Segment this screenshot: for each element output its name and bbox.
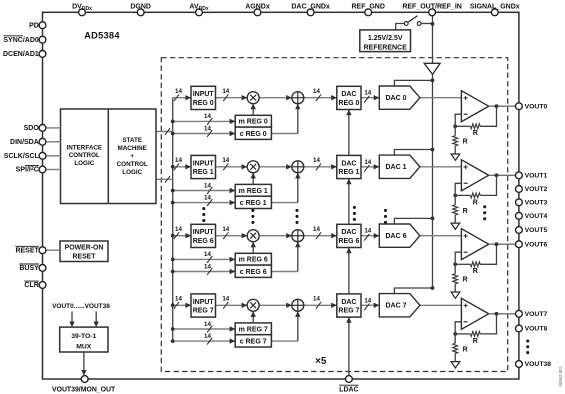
pin VOUT1	[516, 172, 523, 179]
svg-text:VOUT3: VOUT3	[525, 200, 548, 207]
svg-text:AGNDx: AGNDx	[245, 4, 270, 11]
slash and 14 label after adder channel 7	[316, 302, 321, 309]
slash and 14 label after INPUT REG 0	[223, 94, 228, 101]
DAC register box DAC REG 7	[337, 294, 361, 317]
svg-text:SCLK/SCL: SCLK/SCL	[4, 153, 40, 160]
svg-text:VOUT6: VOUT6	[525, 241, 548, 248]
wire c REG 0 tap and feed to adder	[173, 133, 298, 135]
slash and 14 label after DAC REG 0	[364, 96, 369, 103]
svg-text:SIGNAL_GNDx: SIGNAL_GNDx	[470, 4, 520, 11]
svg-text:SPI/I2C: SPI/I2C	[16, 166, 39, 174]
svg-text:VOUT4: VOUT4	[525, 213, 548, 220]
wire SDO to interface box	[46, 127, 61, 129]
wire c REG 1 tap and feed to adder	[173, 202, 298, 204]
svg-text:+: +	[130, 153, 134, 160]
svg-text:SDO: SDO	[24, 125, 40, 132]
svg-text:RESET: RESET	[73, 254, 97, 261]
pin VOUT3	[516, 199, 523, 206]
svg-text:VOUT2: VOUT2	[525, 186, 548, 193]
svg-text:m REG 0: m REG 0	[239, 119, 268, 126]
svg-text:REG 0: REG 0	[338, 100, 359, 107]
DAC 0 converter block	[379, 86, 420, 109]
wire m REG 0 tap	[173, 120, 236, 122]
39-to-1 mux box	[60, 327, 108, 352]
ellipsis dots DAC block column	[384, 209, 387, 212]
svg-text:14: 14	[204, 125, 211, 132]
ground resistor R channel 6	[454, 264, 456, 273]
signal ground arrow channel 7	[451, 362, 460, 368]
DAC register box DAC REG 1	[337, 155, 361, 178]
svg-text:RESET: RESET	[15, 247, 39, 254]
svg-text:14: 14	[204, 194, 211, 201]
svg-text:BUSY: BUSY	[19, 265, 39, 272]
pin BUSY	[39, 265, 46, 272]
svg-text:14: 14	[204, 113, 211, 120]
slash and 14 label after DAC REG 7	[364, 303, 369, 310]
svg-text:INPUT: INPUT	[193, 160, 215, 167]
svg-text:DAC 0: DAC 0	[385, 95, 406, 102]
wire state machine output 2 to bus	[156, 178, 173, 180]
svg-text:REG 7: REG 7	[338, 308, 359, 315]
op-amp output buffer channel 6	[461, 229, 488, 260]
svg-text:14: 14	[364, 90, 371, 97]
svg-text:DAC 1: DAC 1	[385, 164, 406, 171]
multiplier circle channel 6	[247, 230, 259, 242]
slash and 14 label after INPUT REG 6	[223, 232, 228, 239]
multiplier circle channel 1	[247, 161, 259, 173]
wire op-amp 1 output to VOUT pin	[489, 174, 516, 176]
svg-text:REG 6: REG 6	[193, 238, 214, 245]
slash and 14 label after adder channel 6	[316, 232, 321, 239]
multiplier circle channel 0	[247, 92, 259, 104]
wire channel 0 main data path	[173, 97, 462, 99]
svg-text:POWER-ON: POWER-ON	[65, 245, 104, 252]
feedback resistor R channel 7	[480, 314, 496, 334]
wire mux output to VOUT39/MON_OUT pin	[83, 352, 85, 372]
svg-text:m REG 1: m REG 1	[239, 188, 268, 195]
slash and 14 label after DAC REG 1	[364, 165, 369, 172]
input register INPUT REG 7	[191, 294, 216, 317]
pin VOUT4	[516, 212, 523, 219]
svg-text:m REG 6: m REG 6	[239, 257, 268, 264]
power-on reset box	[60, 241, 108, 262]
svg-text:CONTROL: CONTROL	[69, 152, 100, 159]
chip boundary border	[43, 12, 519, 379]
op-amp output buffer channel 7	[461, 298, 488, 329]
pin VOUT38	[516, 361, 523, 368]
ellipsis dots multiplier column	[251, 209, 254, 212]
input register INPUT REG 6	[191, 224, 216, 247]
svg-text:14: 14	[204, 333, 211, 340]
pin SYNC/AD0	[39, 36, 46, 43]
reference buffer amplifier triangle	[424, 63, 440, 74]
op-amp output buffer channel 1	[461, 160, 488, 191]
svg-text:VOUT8: VOUT8	[525, 326, 548, 333]
pin VOUT0	[516, 103, 523, 110]
pin AV top	[196, 9, 203, 16]
svg-text:14: 14	[175, 88, 182, 95]
pin PD	[39, 22, 46, 29]
wire c REG 6 tap and feed to adder	[173, 271, 298, 273]
svg-text:PD: PD	[29, 22, 39, 29]
svg-text:VOUT5: VOUT5	[525, 227, 548, 234]
reference switch	[396, 24, 405, 30]
svg-text:R: R	[463, 346, 468, 353]
svg-text:14: 14	[175, 296, 182, 303]
adder circle channel 1	[286, 164, 292, 169]
wire switch to reference line	[421, 23, 432, 25]
svg-text:R: R	[473, 130, 478, 137]
svg-text:14: 14	[222, 226, 229, 233]
svg-text:VOUT0: VOUT0	[525, 103, 548, 110]
svg-text:39-TO-1: 39-TO-1	[71, 333, 96, 340]
slash and 14 label after DAC REG 6	[364, 234, 369, 241]
slash and 14 label after INPUT REG 7	[223, 302, 228, 309]
svg-text:DCEN/AD1: DCEN/AD1	[3, 51, 39, 58]
pin SDO	[39, 125, 46, 132]
wire feedback to inverting input channel 0	[455, 114, 461, 126]
wire channel 7 main data path	[173, 304, 462, 306]
pin DCEN/AD1	[39, 51, 46, 58]
svg-text:14: 14	[204, 251, 211, 258]
DAC register box DAC REG 0	[337, 86, 361, 109]
svg-text:×5: ×5	[315, 356, 327, 367]
svg-text:REG 6: REG 6	[338, 238, 359, 245]
svg-text:LOGIC: LOGIC	[122, 169, 142, 176]
svg-text:VOUT1: VOUT1	[525, 173, 548, 180]
pin AGNDx top	[254, 9, 261, 16]
svg-text:REF_OUT/REF_IN: REF_OUT/REF_IN	[402, 4, 462, 11]
svg-text:14: 14	[222, 296, 229, 303]
svg-text:DGND: DGND	[130, 4, 151, 11]
svg-text:R: R	[463, 208, 468, 215]
wire m REG 6 tap	[173, 258, 236, 260]
wire RESET pin to power-on reset box	[46, 249, 60, 251]
LDAC arrowhead into DAC REG 6	[346, 248, 351, 254]
bus slash and 14 label before INPUT REG 7	[174, 302, 179, 309]
svg-text:DAC_GNDx: DAC_GNDx	[291, 4, 330, 11]
svg-text:VOUT39/MON_OUT: VOUT39/MON_OUT	[52, 387, 116, 394]
wire state machine output 1 to bus	[156, 131, 173, 133]
svg-text:SYNC/AD0: SYNC/AD0	[3, 37, 39, 44]
bus slash and 14 label before INPUT REG 1	[174, 163, 179, 170]
pin CLR	[39, 282, 46, 289]
wire op-amp 7 output to VOUT pin	[489, 313, 516, 315]
pin RESET	[39, 247, 46, 254]
pin VOUT7	[516, 310, 523, 317]
svg-text:DAC 7: DAC 7	[385, 303, 406, 310]
dashed DAC-channel group box	[161, 58, 507, 372]
m register box m REG 7	[235, 323, 271, 335]
op-amp output buffer channel 0	[461, 91, 488, 122]
svg-text:DAC: DAC	[341, 229, 356, 236]
svg-text:AD5384: AD5384	[84, 31, 120, 41]
svg-text:REF_GND: REF_GND	[351, 4, 384, 11]
svg-text:VOUT38: VOUT38	[525, 361, 552, 368]
svg-text:STATE: STATE	[122, 137, 142, 144]
DAC 6 converter block	[379, 224, 420, 247]
multiplier circle channel 7	[247, 299, 259, 311]
adder circle channel 6	[286, 233, 292, 238]
svg-text:c REG 6: c REG 6	[240, 269, 267, 276]
wire feedback to inverting input channel 6	[455, 252, 461, 264]
svg-text:MACHINE: MACHINE	[118, 145, 147, 152]
ellipsis dots VOUT8 to VOUT38	[526, 339, 529, 342]
wire m REG 1 to multiplier	[252, 173, 254, 185]
DAC 1 converter block	[379, 155, 420, 178]
wire channel 1 main data path	[173, 166, 462, 168]
pin LDAC	[346, 376, 353, 383]
DAC register box DAC REG 6	[337, 224, 361, 247]
reference tap wire to DAC 1	[394, 150, 432, 156]
wire c REG 7 tap and feed to adder	[173, 340, 298, 342]
wire op-amp 0 output to VOUT pin	[489, 105, 516, 107]
ellipsis dots bus column	[202, 207, 205, 210]
signal ground arrow channel 1	[451, 223, 460, 229]
LDAC vertical line	[348, 110, 350, 380]
wire op-amp 6 output to VOUT pin	[489, 243, 516, 245]
slash and 14 label after adder channel 0	[316, 94, 321, 101]
svg-text:DAC: DAC	[341, 91, 356, 98]
svg-text:14: 14	[175, 226, 182, 233]
1.25V/2.5V reference box	[360, 30, 411, 52]
c register box c REG 1	[235, 196, 271, 208]
svg-text:14: 14	[222, 157, 229, 164]
wire feedback to inverting input channel 1	[455, 183, 461, 195]
adder circle channel 0	[286, 95, 292, 100]
wire channel 6 main data path	[173, 235, 462, 237]
c register box c REG 6	[235, 265, 271, 277]
pin REF_GND top	[365, 9, 372, 16]
feedback resistor R channel 0	[480, 106, 496, 126]
svg-text:c REG 0: c REG 0	[240, 131, 267, 138]
svg-text:DAC 6: DAC 6	[385, 233, 406, 240]
reference tap wire to DAC 7	[394, 288, 432, 294]
REF_OUT/REF_IN vertical reference line	[432, 12, 434, 63]
slash and 14 label after INPUT REG 1	[223, 163, 228, 170]
svg-text:14: 14	[204, 182, 211, 189]
pin VOUT39/MON_OUT	[81, 376, 88, 383]
bus slash and 14 label before INPUT REG 0	[174, 94, 179, 101]
pin VOUT6	[516, 241, 523, 248]
svg-text:14: 14	[313, 88, 320, 95]
wire mux input arrows	[71, 312, 73, 323]
svg-text:LDAC: LDAC	[339, 387, 358, 394]
wire m REG 1 tap	[173, 190, 236, 192]
pin VOUT2	[516, 186, 523, 193]
input register INPUT REG 0	[191, 86, 216, 109]
svg-text:VOUT7: VOUT7	[525, 311, 548, 318]
ellipsis dots op-amp column	[483, 205, 486, 208]
svg-text:14: 14	[364, 228, 371, 235]
svg-text:R: R	[473, 268, 478, 275]
wire m REG 6 to multiplier	[252, 242, 254, 254]
reference tap wire to DAC 0	[394, 80, 432, 86]
wire m REG 7 tap	[173, 328, 236, 330]
wire feedback to inverting input channel 7	[455, 322, 461, 334]
svg-text:INTERFACE: INTERFACE	[66, 144, 102, 151]
pin VOUT5	[516, 227, 523, 234]
LDAC arrowhead into DAC REG 0	[346, 110, 351, 116]
signal ground arrow channel 6	[451, 292, 460, 298]
ground resistor R channel 7	[454, 334, 456, 343]
m register box m REG 1	[235, 184, 271, 196]
svg-text:REG 0: REG 0	[193, 100, 214, 107]
svg-text:INPUT: INPUT	[193, 299, 215, 306]
slash and 14 label after adder channel 1	[316, 163, 321, 170]
adder circle channel 7	[286, 303, 292, 308]
svg-text:R: R	[463, 139, 468, 146]
svg-text:INPUT: INPUT	[193, 91, 215, 98]
c register box c REG 7	[235, 335, 271, 347]
svg-text:INPUT: INPUT	[193, 229, 215, 236]
svg-text:REFERENCE: REFERENCE	[364, 44, 408, 51]
ellipsis dots DAC REG column	[353, 206, 356, 209]
LDAC arrowhead into DAC REG 1	[346, 179, 351, 185]
feedback resistor R channel 6	[480, 244, 496, 264]
svg-text:14: 14	[222, 88, 229, 95]
svg-text:14: 14	[204, 263, 211, 270]
svg-text:REG 1: REG 1	[193, 169, 214, 176]
svg-text:CLR: CLR	[24, 282, 38, 289]
ground resistor R channel 1	[454, 195, 456, 204]
svg-text:c REG 1: c REG 1	[240, 200, 267, 207]
ellipsis dots adder column	[295, 209, 298, 212]
svg-text:14: 14	[364, 297, 371, 304]
pin DAC_GNDx top	[307, 9, 314, 16]
svg-text:R: R	[473, 199, 478, 206]
svg-text:14: 14	[313, 296, 320, 303]
pin VOUT8	[516, 325, 523, 332]
svg-text:VOUT0......VOUT38: VOUT0......VOUT38	[52, 303, 110, 310]
wire SCLK/SCL to interface box	[46, 155, 61, 157]
DAC 7 converter block	[379, 294, 420, 317]
bus slash and 14 label before INPUT REG 6	[174, 232, 179, 239]
svg-text:14: 14	[313, 157, 320, 164]
svg-text:R: R	[463, 277, 468, 284]
pin DGND top	[137, 9, 144, 16]
svg-text:DAC: DAC	[341, 299, 356, 306]
pin DV top	[79, 9, 86, 16]
wire DIN/SDA to interface box	[46, 141, 61, 143]
input register INPUT REG 1	[191, 155, 216, 178]
svg-text:REG 1: REG 1	[338, 169, 359, 176]
pin REF_OUT/REF_IN top	[429, 9, 436, 16]
wire m REG 0 to multiplier	[252, 104, 254, 116]
svg-text:04862-001: 04862-001	[558, 365, 563, 386]
svg-text:CONTROL: CONTROL	[117, 161, 148, 168]
pin SCLK/SCL	[39, 152, 46, 159]
LDAC arrowhead into DAC REG 7	[346, 317, 351, 323]
svg-text:1.25V/2.5V: 1.25V/2.5V	[368, 35, 403, 42]
svg-text:DIN/SDA: DIN/SDA	[10, 139, 39, 146]
pin DIN/SDA	[39, 138, 46, 145]
m register box m REG 6	[235, 253, 271, 265]
feedback resistor R channel 1	[480, 175, 496, 195]
svg-text:R: R	[473, 338, 478, 345]
svg-text:14: 14	[204, 321, 211, 328]
wire m REG 7 to multiplier	[252, 311, 254, 323]
svg-text:LOGIC: LOGIC	[74, 160, 94, 167]
svg-text:DAC: DAC	[341, 160, 356, 167]
c register box c REG 0	[235, 127, 271, 139]
svg-text:m REG 7: m REG 7	[239, 326, 268, 333]
interface control logic and state machine box U-ICL	[61, 109, 157, 204]
pin SIGNAL_GNDx top	[491, 9, 498, 16]
signal ground arrow channel 0	[451, 154, 460, 160]
svg-text:REG 7: REG 7	[193, 308, 214, 315]
svg-text:14: 14	[364, 159, 371, 166]
m register box m REG 0	[235, 115, 271, 127]
data bus vertical line	[172, 98, 174, 341]
ground resistor R channel 0	[454, 126, 456, 135]
pin SPI/I2C	[39, 166, 46, 173]
svg-text:14: 14	[313, 226, 320, 233]
reference tap wire to DAC 6	[394, 218, 432, 224]
svg-text:c REG 7: c REG 7	[240, 338, 267, 345]
svg-text:MUX: MUX	[76, 343, 92, 350]
svg-text:14: 14	[175, 157, 182, 164]
wire SPI/I2C to interface box	[46, 169, 61, 171]
